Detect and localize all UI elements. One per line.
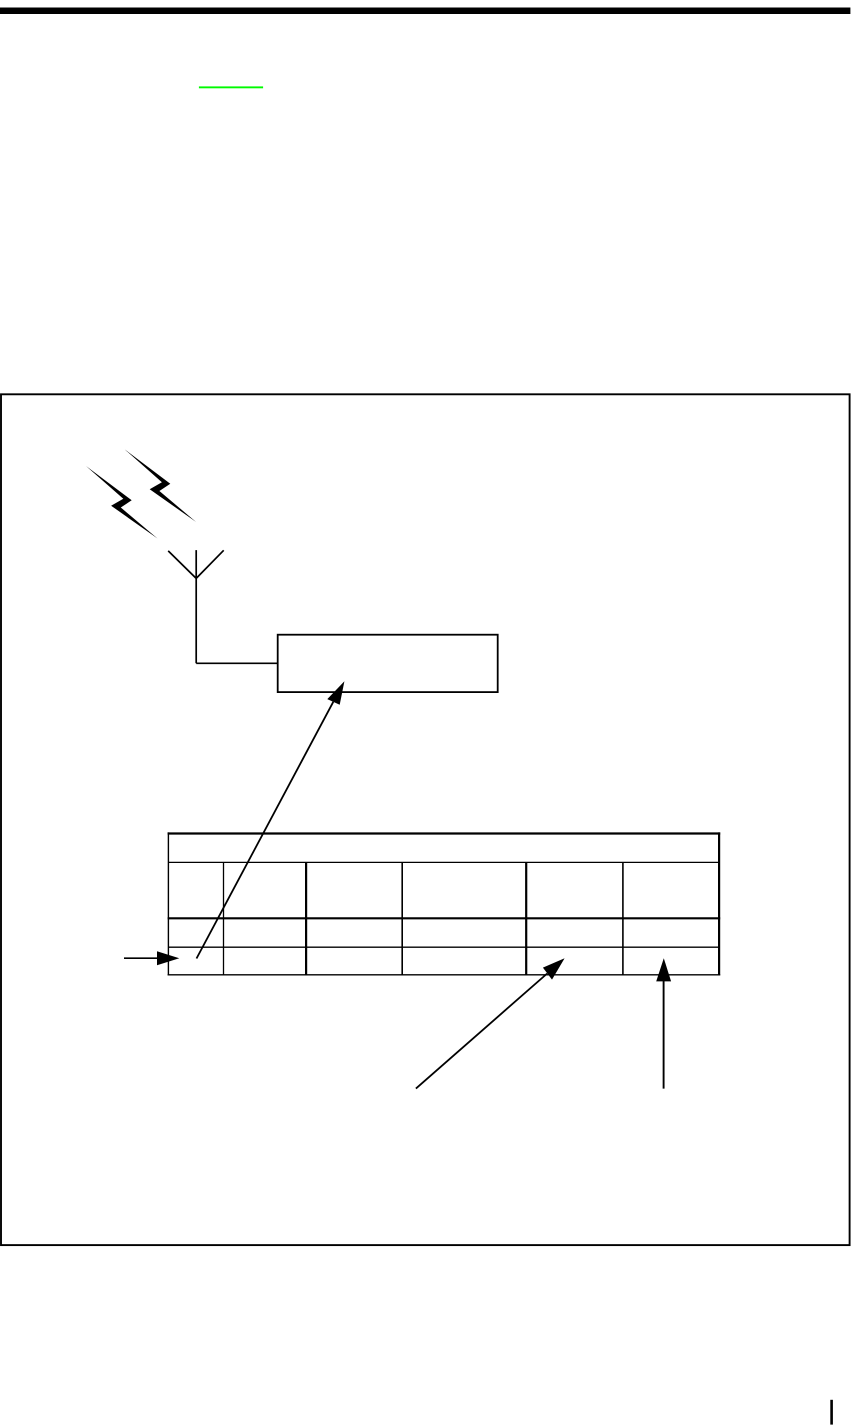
arrow up vertical : head	[656, 958, 671, 981]
antenna	[168, 550, 224, 663]
table column divider 4 thick	[525, 862, 527, 974]
table column divider 3	[401, 862, 403, 974]
lightning bolt 1 (upper right)	[125, 449, 196, 522]
table bottom border	[168, 974, 721, 976]
table right border thick	[718, 832, 720, 975]
box (receiver)	[278, 635, 498, 692]
table top border thick	[168, 832, 721, 834]
arrow from table to box : head	[327, 681, 344, 705]
cursor bar bottom right	[830, 1400, 833, 1425]
table row divider line	[168, 946, 719, 948]
arrow into first cell : head	[157, 951, 179, 965]
arrow from table to box : shaft	[197, 702, 334, 959]
table left border	[167, 832, 169, 975]
figure frame	[1, 394, 850, 1245]
table thick divider line under tall row	[168, 917, 721, 919]
table header divider line	[168, 861, 719, 863]
table column divider 5	[622, 862, 624, 974]
table column divider 2 thick	[305, 862, 307, 974]
wire from antenna to box	[196, 662, 278, 664]
hyperlink underline (green)	[199, 86, 263, 88]
arrow into first cell : shaft	[124, 957, 160, 959]
arrow to cell diagonal : shaft	[416, 974, 547, 1089]
table column divider 1	[223, 862, 225, 974]
arrow up vertical : shaft	[663, 981, 665, 1089]
arrow to cell diagonal : head	[543, 958, 565, 979]
header rule bar	[0, 8, 850, 15]
lightning bolt 2 (lower left)	[86, 466, 158, 539]
